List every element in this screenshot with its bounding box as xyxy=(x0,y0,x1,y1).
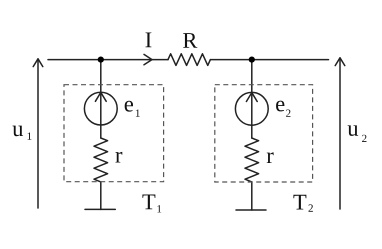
resistor r left xyxy=(94,138,108,182)
label e1 xyxy=(125,101,140,117)
wire top-left segment xyxy=(48,59,168,61)
u2 measurement arrow xyxy=(339,58,341,209)
label u1 xyxy=(13,126,32,140)
wire top-right segment xyxy=(210,59,328,61)
label r right xyxy=(267,152,274,163)
label r left xyxy=(115,152,122,163)
voltage source e1 xyxy=(84,92,117,125)
label e2 xyxy=(276,101,290,117)
ground T2 xyxy=(236,209,266,211)
wire right branch junction to resistor xyxy=(251,60,253,138)
resistor R xyxy=(168,54,210,66)
wire right branch to ground xyxy=(251,182,253,210)
node junction left xyxy=(98,57,104,63)
voltage source e2 xyxy=(235,92,268,125)
dashed box T2 xyxy=(215,85,313,182)
label T1 xyxy=(142,194,161,212)
dashed box T1 xyxy=(64,85,164,182)
resistor r right xyxy=(245,138,259,182)
wire left branch junction to resistor xyxy=(100,60,102,138)
node junction right xyxy=(249,57,255,63)
u1 measurement arrow xyxy=(37,59,39,208)
label T2 xyxy=(293,195,312,212)
wire left branch to ground xyxy=(100,182,102,210)
label u2 xyxy=(348,125,367,142)
ground T1 xyxy=(85,208,115,210)
current arrow I xyxy=(144,54,152,64)
label I xyxy=(146,32,152,47)
label R xyxy=(183,33,197,48)
